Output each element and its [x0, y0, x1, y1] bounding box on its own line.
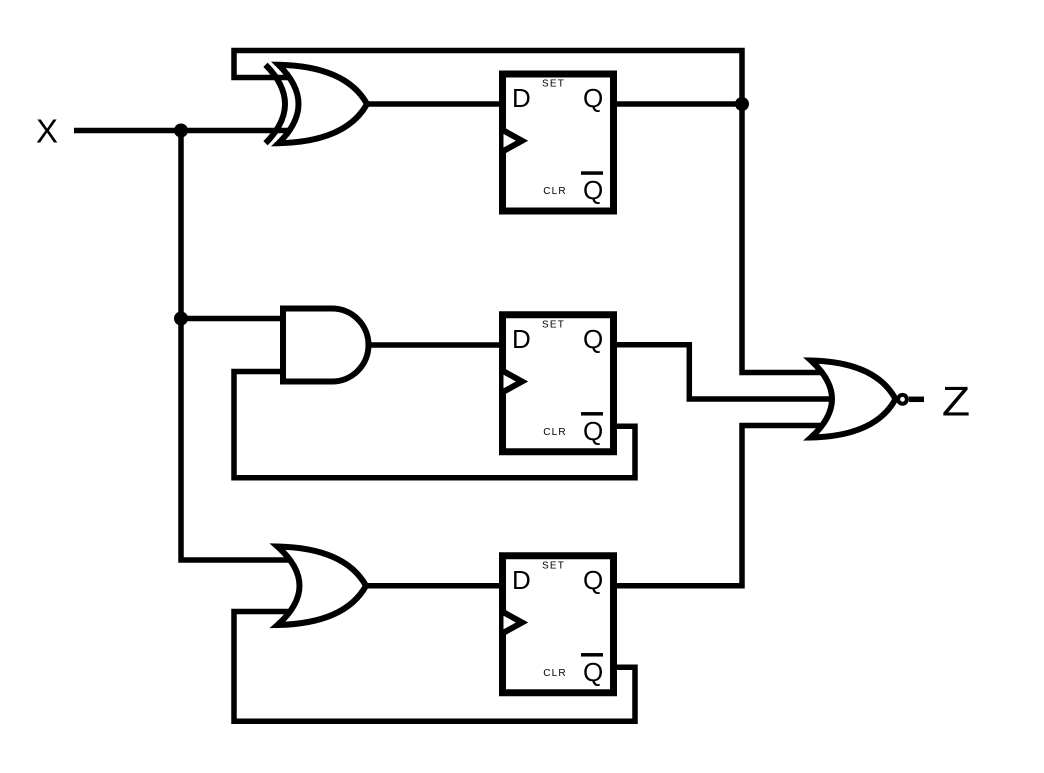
wire X vertical trunk: [181, 131, 295, 561]
and gate body: [283, 309, 369, 382]
svg-text:Z: Z: [942, 378, 970, 425]
junction node X-row2: [174, 312, 188, 326]
wire FF3 Q to NOR bottom input: [614, 426, 827, 586]
wire AND output to FF2 D: [368, 342, 503, 348]
wire FF2 Qbar feedback to AND bottom input: [234, 372, 635, 478]
flip-flop U3 (bottom): [503, 556, 614, 693]
nor gate output bubble: [898, 395, 907, 404]
wire feedback FF1 Q to XOR top input: [234, 51, 742, 105]
junction node FF1 Q: [735, 97, 749, 111]
wire Z output: [909, 397, 924, 403]
nor gate body: [811, 361, 896, 438]
wire FF1 Q output: [614, 101, 743, 107]
xor gate body: [279, 65, 368, 144]
junction node X-row1: [174, 124, 188, 138]
wire XOR output to FF1 D: [366, 101, 503, 107]
wire FF1 Q to NOR top input: [742, 104, 826, 373]
flip-flop U1 (top): [503, 74, 614, 211]
wire OR output to FF3 D: [366, 583, 503, 589]
wire FF2 Q to NOR middle input: [614, 345, 830, 399]
wire FF3 Qbar feedback to OR bottom input: [234, 612, 635, 722]
wire X input horizontal: [74, 128, 295, 134]
xor gate extra back arc: [266, 65, 286, 144]
svg-text:X: X: [36, 113, 58, 150]
flip-flop U2 (middle): [503, 315, 614, 452]
wire to AND top input: [181, 316, 284, 322]
or gate body: [278, 547, 367, 626]
